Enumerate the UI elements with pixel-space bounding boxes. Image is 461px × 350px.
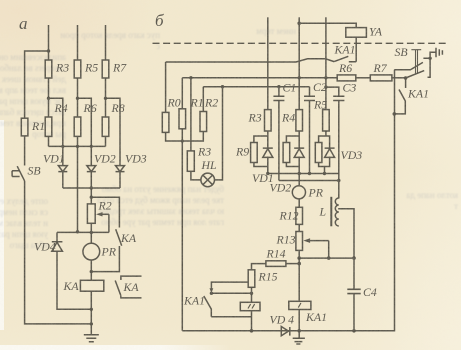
resistor R2b xyxy=(200,112,207,132)
lamp HL xyxy=(201,173,215,187)
wire diode bus xyxy=(63,187,120,189)
contact KA branch xyxy=(91,197,119,227)
node bus/bypass2 xyxy=(90,145,93,148)
node bus/bypass1 xyxy=(61,145,64,148)
wire bypass 1 xyxy=(49,98,63,165)
resistor R3 xyxy=(45,60,52,78)
wire resistor bottom bus xyxy=(49,145,106,147)
node C3 tap xyxy=(324,85,327,88)
node L3 right xyxy=(337,179,340,182)
resistor R13 xyxy=(296,232,303,251)
node shunt mid xyxy=(210,292,213,295)
bleed-through ghost text xyxy=(0,52,66,140)
pair2 merge xyxy=(286,157,299,186)
wire below R13 xyxy=(298,250,300,301)
wire R8 bottom to bus xyxy=(105,136,107,146)
node line2 end xyxy=(76,230,79,233)
node SB xyxy=(404,76,408,80)
merge bus L2 xyxy=(268,173,339,175)
wire R1 branch from line1 xyxy=(25,51,49,118)
inductor L winding xyxy=(335,198,338,226)
wire R15 to coil2 xyxy=(251,287,253,302)
contact KA1 shunt mid row xyxy=(211,292,251,294)
wire supply v2 top xyxy=(298,17,300,109)
switch SB pushbutton prongs xyxy=(12,171,20,177)
wire R1b bottom xyxy=(181,129,183,141)
resistor R1b xyxy=(179,109,186,129)
node L2 at PR column xyxy=(298,172,301,175)
resistor R4 xyxy=(45,117,52,136)
wiper row 258 xyxy=(299,257,354,259)
chassis symbol xyxy=(436,48,442,58)
wire line2 continues down to VD4 row xyxy=(77,136,79,231)
node ground b xyxy=(297,329,301,333)
wire R13 wiper down xyxy=(328,241,330,259)
node C4 bottom xyxy=(352,329,356,333)
resistor R6b xyxy=(337,75,356,81)
resistor R7 xyxy=(102,60,109,78)
wire YA feed xyxy=(299,23,356,27)
node merge at R1 xyxy=(181,139,184,142)
node SBb top xyxy=(428,57,431,60)
pushbutton plunger SBb xyxy=(411,50,421,74)
node 258 right xyxy=(352,256,356,260)
pair3 split xyxy=(319,131,330,148)
node 258 left xyxy=(297,256,301,260)
pair2 split xyxy=(286,131,299,148)
wire SB down to ground bus xyxy=(25,181,92,324)
node L2 left xyxy=(266,172,269,175)
pair1 merge xyxy=(254,157,268,174)
resistor R9 xyxy=(251,143,258,163)
diode VD3b xyxy=(325,148,335,157)
diode VD4b xyxy=(281,327,290,336)
node below PR xyxy=(90,270,93,273)
rail C xyxy=(203,86,309,88)
capacitor C1 xyxy=(273,87,284,181)
resistor R7b xyxy=(370,75,392,81)
diode VD3 xyxy=(116,166,125,172)
diode VD4 xyxy=(52,232,63,251)
wire R14 row xyxy=(286,263,299,265)
free contact KA top wire xyxy=(121,276,142,280)
wire phase line 1 xyxy=(48,25,50,60)
resistor R2 rheostat xyxy=(87,204,95,223)
pair3 merge xyxy=(319,157,330,174)
pair1 split to R9 xyxy=(254,131,268,148)
rail B left end down through R1 xyxy=(181,78,183,109)
coil KA xyxy=(80,280,103,291)
relay PR circle xyxy=(83,243,100,260)
wire VD1 to bus xyxy=(62,172,64,188)
resistor R15 xyxy=(248,270,255,288)
resistor R4b xyxy=(296,110,303,131)
resistor R0 xyxy=(162,112,169,132)
rail C left end down to R2 xyxy=(202,87,204,112)
rail A xyxy=(166,59,335,62)
wire R4 bottom to bus xyxy=(48,136,50,146)
capacitor C2 xyxy=(304,87,315,174)
relay PRb circle xyxy=(292,186,305,199)
free contact KA lever xyxy=(115,281,121,296)
node junction line3/bypass3 xyxy=(104,97,107,100)
wire to chassis xyxy=(430,52,436,58)
node R1 branch xyxy=(47,49,50,52)
wire PR to coil xyxy=(90,260,92,280)
left bus down xyxy=(181,141,183,331)
contact KA lever xyxy=(116,229,122,246)
resistor R12 xyxy=(296,207,303,224)
wire VD2 to bus xyxy=(90,172,92,188)
diode VD2 xyxy=(87,166,96,172)
resistor R6 xyxy=(74,117,81,136)
merge bus L3 xyxy=(279,180,339,182)
node KA branch tap xyxy=(90,196,93,199)
wire wiper return xyxy=(108,214,110,232)
resistor R14 xyxy=(266,261,286,267)
node R2 column cross xyxy=(90,231,93,234)
wire coil2 to bus xyxy=(251,311,253,331)
wire R1 to SB xyxy=(24,136,26,166)
resistor R3hl xyxy=(187,151,194,171)
wiper arrow of R2 xyxy=(99,213,109,215)
contact KA branch lower xyxy=(91,246,119,272)
wire coil to ground xyxy=(90,291,92,334)
switch SBb fixed terminal xyxy=(423,57,430,77)
diode VD1b xyxy=(263,148,273,157)
wire R7 to SB node xyxy=(392,77,406,79)
resistor R1 xyxy=(21,118,28,136)
resistor R5 xyxy=(74,60,81,78)
contact KA1 right branch xyxy=(405,78,407,88)
resistor R5b xyxy=(323,110,330,131)
electromagnet YA xyxy=(346,28,367,38)
contact KA1 right lever xyxy=(394,90,405,114)
node junction line1/bypass1 xyxy=(47,97,50,100)
node R14 join xyxy=(297,262,301,266)
node diode bus center xyxy=(90,186,93,189)
wire VD3 to bus xyxy=(119,172,121,188)
wire R6 to R7 xyxy=(356,77,371,79)
wire R12 to R13 xyxy=(298,224,300,231)
wire supply v1 top xyxy=(267,17,269,109)
node shunt mid right xyxy=(250,292,253,295)
contact KA1 shunt bottom row xyxy=(211,316,251,318)
wire R3 to lamp xyxy=(191,171,201,180)
ground symbol xyxy=(84,335,99,342)
contact KA1 under YA lever xyxy=(334,56,348,61)
wire supply v3 top xyxy=(325,17,327,109)
node C1 tap on rail C xyxy=(277,85,280,88)
wire R2 to PR xyxy=(90,223,92,243)
node 258 wiper xyxy=(327,256,331,260)
capacitor C4 xyxy=(347,289,360,293)
wire bypass 3 xyxy=(106,98,121,165)
wire R3HL column xyxy=(190,78,192,151)
coil KA1 slash2 xyxy=(240,302,260,310)
contact KA1 shunt lever xyxy=(204,296,212,317)
wire horizontal row 232 xyxy=(57,231,109,233)
rail B xyxy=(182,77,337,79)
dashed boundary line xyxy=(153,42,449,44)
wire R14 left to R15 xyxy=(252,264,266,270)
node YA feed tap xyxy=(297,22,301,26)
bottom bus xyxy=(182,70,394,331)
resistor pair3 xyxy=(315,143,322,163)
node v2 on rail B xyxy=(298,76,301,79)
switch SBb lever lower xyxy=(406,71,425,78)
switch SB lever xyxy=(17,166,24,181)
wire below R5 xyxy=(77,78,79,117)
merge line R0 R1 R2 xyxy=(166,132,204,142)
resistor pair2 xyxy=(283,143,290,163)
rail A left end down to R0 xyxy=(165,62,167,112)
node v3 on rail B xyxy=(324,76,327,79)
node lamp column on rail C xyxy=(221,85,224,88)
node L2 at pair3 xyxy=(323,172,326,175)
switch SBb lever upper xyxy=(394,62,423,69)
diode VD2b xyxy=(294,148,304,157)
resistor R3b xyxy=(265,110,272,131)
free contact KA bottom wire xyxy=(121,295,142,298)
wiper arrow R13 xyxy=(307,240,329,242)
wire lamp right up to rail C xyxy=(215,87,223,180)
wire L tap to C4 column xyxy=(338,209,354,331)
inductor L core xyxy=(330,197,332,227)
node coil2 bus xyxy=(250,329,254,333)
contact KA1 shunt top xyxy=(211,282,248,290)
coil KA1 slash1 xyxy=(289,301,311,309)
wire VD4 down and to coil column xyxy=(57,251,91,309)
resistor R8 xyxy=(102,117,109,136)
node SB return xyxy=(90,322,93,325)
wire phase line 3 xyxy=(105,25,107,60)
wire below R3 xyxy=(48,78,50,117)
wire coil1 to bus xyxy=(298,310,300,331)
node L2 at C2 xyxy=(308,172,311,175)
node bus/line2 xyxy=(76,145,79,148)
wire below R7 xyxy=(105,78,107,117)
wire bypass 2 xyxy=(78,98,92,165)
ground symbol b xyxy=(293,331,305,344)
wire bus to R2 xyxy=(90,188,92,204)
node KA1 branch join xyxy=(393,112,397,116)
capacitor C3 xyxy=(326,87,345,198)
wire phase line 2 xyxy=(77,25,79,60)
wire YA bottom xyxy=(349,37,356,62)
node junction line2/bypass2 xyxy=(76,97,79,100)
node VD4 return xyxy=(90,308,93,311)
diode VD1 xyxy=(58,166,67,172)
wire PR to R12 xyxy=(298,199,300,207)
node R3HL tap on rail B xyxy=(189,76,192,79)
